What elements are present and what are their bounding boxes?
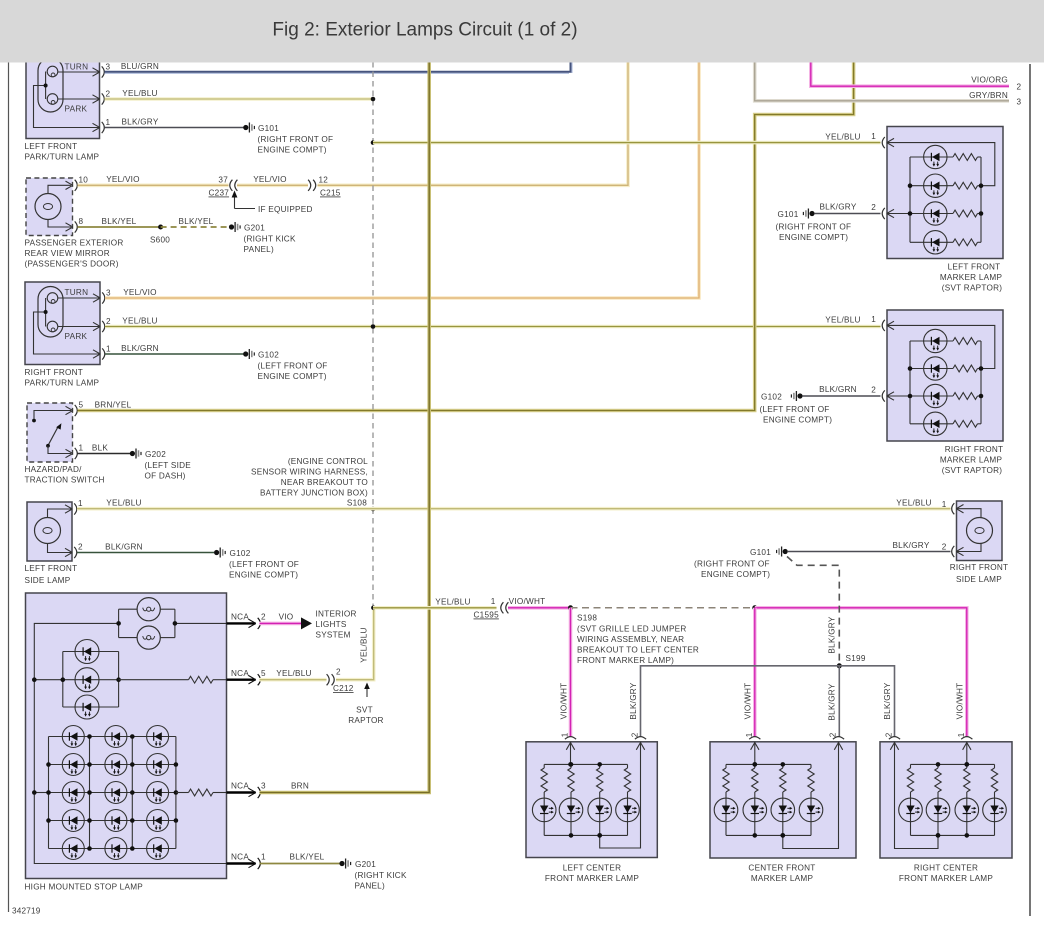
internal common wire to pin 1: [45, 72, 47, 100]
svg-text:(RIGHT KICK: (RIGHT KICK: [244, 235, 296, 244]
svg-text:ENGINE COMPT): ENGINE COMPT): [258, 372, 327, 381]
svg-text:BATTERY JUNCTION BOX): BATTERY JUNCTION BOX): [260, 489, 368, 498]
harness S108 dashed line: [372, 62, 374, 608]
svg-text:RIGHT FRONT: RIGHT FRONT: [950, 563, 1009, 572]
stop lamp LED grid rails: [48, 737, 50, 849]
turn filament: [47, 293, 58, 304]
wire BLK/YEL dashed to G201: [161, 226, 229, 228]
svg-text:1: 1: [871, 132, 876, 141]
svg-text:37: 37: [218, 175, 228, 184]
wire VIO/WHT drop to center lamp: [753, 608, 757, 737]
lamp RIGHT FRONT SIDE LAMP box: [957, 501, 1003, 561]
svg-text:C215: C215: [320, 189, 341, 198]
pin 1 connector: [887, 321, 894, 325]
svg-text:PASSENGER EXTERIOR: PASSENGER EXTERIOR: [25, 239, 124, 248]
svg-text:G101: G101: [750, 548, 771, 557]
pin NCA 3 stub: [227, 791, 256, 793]
lamp LEFT FRONT MARKER LAMP box: [887, 127, 1003, 259]
LED D2: [75, 668, 99, 692]
LED D1: [75, 640, 99, 664]
svg-text:S198: S198: [577, 614, 597, 623]
switch HAZARD/PAD/TRACTION box (dashed): [27, 403, 73, 462]
svg-text:VIO/WHT: VIO/WHT: [560, 683, 569, 720]
svg-text:VIO/ORG: VIO/ORG: [971, 76, 1008, 85]
stop lamp grid left feed: [34, 792, 48, 794]
marker lamp LEDs: [924, 329, 947, 352]
internal wire turn filament to pin 3: [58, 71, 99, 73]
svg-text:YEL/VIO: YEL/VIO: [123, 288, 157, 297]
marker lamp chains and rails: [544, 763, 627, 765]
lamp RIGHT FRONT MARKER LAMP box: [887, 310, 1003, 441]
svg-text:(SVT RAPTOR): (SVT RAPTOR): [942, 466, 1002, 475]
side lamp bulb: [35, 518, 61, 544]
svg-text:1: 1: [871, 315, 876, 324]
svg-text:5: 5: [261, 669, 266, 678]
svg-text:REAR VIEW MIRROR: REAR VIEW MIRROR: [25, 249, 110, 258]
pin 2 top connector: [636, 743, 640, 750]
pin 1 internal wire: [887, 325, 995, 368]
lamp LEFT FRONT SIDE LAMP box: [27, 502, 72, 561]
svg-text:C237: C237: [209, 189, 230, 198]
svg-text:Fig 2: Exterior Lamps Circuit: Fig 2: Exterior Lamps Circuit (1 of 2): [272, 20, 577, 41]
svg-text:2: 2: [261, 613, 266, 622]
marker lamp rows and brackets: [909, 341, 911, 424]
marker lamp LEDs: [899, 798, 923, 822]
svg-text:YEL/VIO: YEL/VIO: [106, 175, 140, 184]
svg-text:BLK/GRY: BLK/GRY: [828, 683, 837, 720]
svg-text:YEL/BLU: YEL/BLU: [896, 499, 931, 508]
pin 1 top connector: [566, 743, 570, 750]
pin 2 internal wire: [600, 742, 641, 848]
turn filament: [47, 66, 58, 77]
connector C215 half: [308, 180, 311, 191]
pin 2 connector: [93, 322, 100, 326]
svg-text:2: 2: [871, 203, 876, 212]
svg-text:BLK/YEL: BLK/YEL: [290, 853, 325, 862]
svg-text:SIDE LAMP: SIDE LAMP: [956, 575, 1002, 584]
node S108 junction trunk to left marker: [371, 140, 376, 145]
svg-text:G102: G102: [761, 393, 782, 402]
svg-text:(LEFT SIDE: (LEFT SIDE: [145, 461, 192, 470]
svg-text:2: 2: [106, 317, 111, 326]
svg-text:ENGINE COMPT): ENGINE COMPT): [258, 146, 327, 155]
IF EQUIPPED callout: [234, 194, 236, 209]
svg-text:PANEL): PANEL): [355, 882, 385, 891]
svg-text:BRN: BRN: [291, 782, 309, 791]
LED D3: [75, 695, 99, 719]
wire YEL/BLU pin 2 to right marker lamp: [105, 325, 881, 329]
svg-text:342719: 342719: [12, 907, 41, 916]
wire VIO to interior lights: [260, 622, 302, 626]
marker lamp LEDs: [924, 145, 947, 168]
svg-text:C1595: C1595: [474, 611, 500, 620]
svg-text:S108: S108: [347, 499, 367, 508]
svg-text:SVT: SVT: [356, 706, 373, 715]
svg-text:NEAR BREAKOUT TO: NEAR BREAKOUT TO: [281, 478, 368, 487]
svg-text:ENGINE COMPT): ENGINE COMPT): [701, 570, 770, 579]
splice S198: [568, 605, 573, 610]
stop lamp LED grid diodes: [62, 726, 84, 748]
svg-text:GRY/BRN: GRY/BRN: [969, 91, 1008, 100]
svg-text:(SVT GRILLE LED JUMPER: (SVT GRILLE LED JUMPER: [577, 625, 687, 634]
junction dots bulb bracket: [116, 621, 121, 626]
svg-text:BLK/GRY: BLK/GRY: [121, 118, 158, 127]
svg-text:FRONT MARKER LAMP: FRONT MARKER LAMP: [899, 874, 993, 883]
pin 1 top connector: [751, 743, 755, 750]
stop lamp bulb 2: [137, 626, 160, 649]
svg-text:YEL/BLU: YEL/BLU: [122, 89, 157, 98]
svg-text:5: 5: [79, 401, 84, 410]
svg-text:YEL/BLU: YEL/BLU: [276, 669, 311, 678]
svg-text:BLK: BLK: [92, 444, 109, 453]
mirror internal wire pin 10: [48, 185, 71, 193]
svg-text:BLK/GRN: BLK/GRN: [819, 385, 857, 394]
svg-text:3: 3: [106, 289, 111, 298]
wire YEL/BLU C212 up to node: [336, 608, 374, 680]
svg-text:1: 1: [957, 732, 966, 737]
node S108 junction YEL/BLU right lamp: [371, 324, 376, 329]
pin 2 connector: [93, 95, 100, 99]
ground G102: [797, 393, 802, 398]
pin 1 internal wire: [570, 742, 572, 765]
svg-text:VIO: VIO: [279, 613, 294, 622]
marker lamp LEDs: [532, 798, 556, 822]
wire BLK/YEL to G201: [260, 863, 341, 865]
ground G101 right side: [783, 549, 788, 554]
svg-text:G202: G202: [145, 450, 166, 459]
pin 1 internal wire: [887, 143, 995, 186]
svg-text:2: 2: [885, 732, 894, 737]
marker lamp chains and rails: [911, 763, 995, 765]
svg-text:RIGHT CENTER: RIGHT CENTER: [914, 864, 978, 873]
right cut-off component edge: [1029, 64, 1031, 916]
wire YEL/VIO C215 up top: [318, 62, 629, 185]
pin 3 connector: [93, 68, 100, 72]
svg-text:(RIGHT FRONT OF: (RIGHT FRONT OF: [258, 135, 334, 144]
svg-text:ENGINE COMPT): ENGINE COMPT): [779, 233, 848, 242]
pin 2 internal wire: [895, 742, 939, 849]
svg-text:LEFT FRONT: LEFT FRONT: [948, 263, 1001, 272]
pin 1 connector: [887, 138, 894, 142]
svg-text:G101: G101: [777, 210, 798, 219]
internal wire park filament to pin 2: [58, 326, 99, 328]
svg-text:PARK/TURN LAMP: PARK/TURN LAMP: [25, 379, 100, 388]
svg-text:BLK/GRY: BLK/GRY: [883, 682, 892, 719]
side lamp internal wire pin 1: [48, 509, 72, 518]
internal common wire to pin 1: [45, 298, 47, 327]
junction dots marker lamp: [936, 762, 941, 767]
wire BLK/GRY pin 1 to G101: [105, 127, 244, 129]
svg-text:ENGINE COMPT): ENGINE COMPT): [763, 416, 832, 425]
wire BLK to G202: [78, 453, 131, 455]
junction dot in lamp: [44, 84, 48, 88]
pin 2 internal wire: [887, 395, 910, 397]
wire YEL/VIO between connectors: [237, 184, 308, 188]
dual filament bulb symbol: [38, 58, 63, 112]
wire VIO/WHT to right center lamp: [755, 608, 967, 737]
svg-text:LIGHTS: LIGHTS: [316, 620, 347, 629]
wire BLK/GRY G101 to right side lamp: [788, 551, 951, 553]
left page border: [8, 63, 10, 913]
park filament: [47, 94, 58, 105]
svg-text:BLK/GRN: BLK/GRN: [105, 543, 143, 552]
stop lamp left rail: [34, 623, 226, 863]
switch wire top: [34, 411, 71, 419]
lamp RIGHT FRONT PARK/TURN LAMP box: [25, 282, 100, 365]
svg-text:G101: G101: [258, 124, 279, 133]
svg-text:BLK/GRY: BLK/GRY: [892, 541, 929, 550]
stop lamp bulb output wire: [175, 622, 227, 624]
svg-text:(LEFT FRONT OF: (LEFT FRONT OF: [760, 405, 830, 414]
junction dots LED grid: [87, 734, 92, 739]
switch pivot dot: [46, 444, 50, 448]
svg-text:S600: S600: [150, 236, 170, 245]
svg-text:LEFT FRONT: LEFT FRONT: [25, 142, 78, 151]
svg-text:G201: G201: [244, 224, 265, 233]
wire YEL/BLU side lamps trunk: [77, 507, 951, 511]
node S108 end junction: [371, 606, 376, 611]
connector C237 half: [230, 180, 233, 191]
lamp LEFT CENTER FRONT MARKER LAMP box: [526, 742, 657, 858]
svg-text:RAPTOR: RAPTOR: [348, 716, 383, 725]
pin 1 connector: [93, 123, 100, 127]
junction dot in lamp: [44, 310, 48, 314]
pin 2 connector: [65, 548, 72, 552]
ground G202: [130, 451, 135, 456]
svg-text:TRACTION SWITCH: TRACTION SWITCH: [25, 476, 105, 485]
wire YEL/BLU pin 2 to S108: [105, 97, 374, 101]
svg-text:(ENGINE CONTROL: (ENGINE CONTROL: [288, 457, 368, 466]
switch blade: [48, 427, 58, 446]
svg-text:MARKER LAMP: MARKER LAMP: [940, 273, 1003, 282]
svg-text:(PASSENGER'S DOOR): (PASSENGER'S DOOR): [25, 260, 119, 269]
svg-text:3: 3: [261, 782, 266, 791]
ground G101 left: [243, 125, 248, 130]
svg-text:1: 1: [106, 118, 111, 127]
pin 2 top connector: [890, 743, 894, 750]
pin 8 connector: [66, 223, 73, 227]
marker lamp rows and brackets: [909, 157, 911, 242]
svg-text:WIRING ASSEMBLY, NEAR: WIRING ASSEMBLY, NEAR: [577, 635, 684, 644]
jumper dashed wire S198 segment: [571, 607, 755, 609]
wire YEL/BLU to C212: [260, 678, 327, 682]
svg-text:YEL/BLU: YEL/BLU: [106, 499, 141, 508]
svg-text:1: 1: [942, 500, 947, 509]
svg-text:BLK/GRY: BLK/GRY: [819, 203, 856, 212]
pin 2 internal wire: [887, 213, 910, 215]
side lamp bulb: [967, 518, 993, 544]
svg-text:3: 3: [106, 63, 111, 72]
svg-text:SIDE LAMP: SIDE LAMP: [25, 576, 71, 585]
svg-text:BLK/GRY: BLK/GRY: [828, 616, 837, 653]
pin 1 top connector: [963, 743, 967, 750]
svg-text:BLK/GRY: BLK/GRY: [629, 682, 638, 719]
svg-text:C212: C212: [333, 684, 354, 693]
svg-text:BREAKOUT TO LEFT CENTER: BREAKOUT TO LEFT CENTER: [577, 646, 699, 655]
park filament: [47, 321, 58, 332]
mirror bulb: [35, 194, 61, 220]
svg-text:INTERIOR: INTERIOR: [316, 610, 357, 619]
svg-text:1: 1: [491, 597, 496, 606]
pin 2 connector: [887, 209, 894, 213]
svg-text:G102: G102: [258, 351, 279, 360]
svg-text:YEL/BLU: YEL/BLU: [122, 317, 157, 326]
wire BLK/GRN pin 1 to G102: [105, 353, 243, 355]
svg-text:FRONT MARKER LAMP): FRONT MARKER LAMP): [577, 656, 674, 665]
svg-text:2: 2: [829, 732, 838, 737]
resistor R2: [176, 792, 189, 794]
svg-text:3: 3: [1017, 98, 1022, 107]
junction dots marker lamp: [569, 762, 574, 767]
wire BLK/GRY S199 to right center lamp: [839, 666, 894, 737]
svg-text:OF DASH): OF DASH): [145, 472, 186, 481]
node S108 junction YEL/BLU side lamp: [371, 507, 376, 512]
lamp CENTER FRONT MARKER LAMP box: [710, 742, 856, 858]
svg-text:YEL/BLU: YEL/BLU: [825, 316, 860, 325]
svg-text:BLU/GRN: BLU/GRN: [121, 62, 159, 71]
ground G102: [243, 351, 248, 356]
svg-text:(RIGHT KICK: (RIGHT KICK: [355, 871, 407, 880]
ground G201 mirror: [229, 224, 234, 229]
pin 1 internal wire: [966, 742, 968, 765]
junction dots LED group: [32, 677, 37, 682]
svg-text:PARK: PARK: [65, 105, 88, 114]
splice S600: [158, 225, 163, 230]
svg-text:1: 1: [106, 345, 111, 354]
pin 1 connector: [65, 505, 72, 509]
switch wire bottom: [48, 446, 71, 454]
svg-text:1: 1: [745, 732, 754, 737]
svg-text:(LEFT FRONT OF: (LEFT FRONT OF: [258, 362, 328, 371]
svg-text:RIGHT FRONT: RIGHT FRONT: [25, 368, 84, 377]
svg-text:FRONT MARKER LAMP: FRONT MARKER LAMP: [545, 874, 639, 883]
svg-text:(SVT RAPTOR): (SVT RAPTOR): [942, 284, 1002, 293]
node S108 junction YEL/BLU left lamp: [371, 97, 376, 102]
title bar: [0, 0, 1044, 63]
wire VIO/WHT C1595 to S198: [508, 606, 571, 610]
svg-text:NCA: NCA: [231, 613, 249, 622]
svg-text:YEL/BLU: YEL/BLU: [825, 133, 860, 142]
wire GRY/BRN top right: [755, 62, 1009, 101]
wire YEL/BLU S108 to left marker lamp: [373, 141, 881, 145]
resistor R1: [119, 679, 189, 681]
svg-text:1: 1: [261, 853, 266, 862]
pin NCA 1 stub: [227, 862, 256, 864]
pin 10 connector: [66, 181, 73, 185]
internal wire park filament to pin 2: [58, 98, 99, 100]
dashed BLK/GRY from G101 to S199: [787, 557, 839, 665]
svg-text:HAZARD/PAD/: HAZARD/PAD/: [25, 465, 83, 474]
svg-text:1: 1: [79, 444, 84, 453]
svg-text:LEFT CENTER: LEFT CENTER: [563, 864, 622, 873]
svg-text:SENSOR WIRING HARNESS,: SENSOR WIRING HARNESS,: [251, 468, 368, 477]
svg-text:HIGH MOUNTED STOP LAMP: HIGH MOUNTED STOP LAMP: [25, 883, 144, 892]
pin 2 connector: [887, 392, 894, 396]
dual filament bulb symbol: [38, 287, 63, 338]
marker lamp LEDs: [714, 798, 738, 822]
pin 1 connector: [956, 505, 963, 509]
side lamp internal wire pin 1: [957, 509, 982, 518]
svg-text:1: 1: [561, 732, 570, 737]
svg-text:(LEFT FRONT OF: (LEFT FRONT OF: [229, 560, 299, 569]
node jumper junction 2: [752, 605, 757, 610]
svg-text:SYSTEM: SYSTEM: [316, 631, 351, 640]
side lamp internal wire pin 2: [957, 544, 982, 552]
svg-text:2: 2: [78, 543, 83, 552]
svg-text:2: 2: [631, 732, 640, 737]
svg-text:8: 8: [79, 217, 84, 226]
svg-text:G102: G102: [230, 549, 251, 558]
svg-text:2: 2: [1017, 83, 1022, 92]
switch contact dot: [32, 419, 36, 423]
svg-text:RIGHT FRONT: RIGHT FRONT: [945, 445, 1004, 454]
wire VIO/ORG top right: [811, 62, 1009, 86]
svg-text:BRN/YEL: BRN/YEL: [95, 401, 132, 410]
pin 2 internal wire: [783, 742, 839, 849]
svg-text:MARKER LAMP: MARKER LAMP: [751, 874, 814, 883]
wire YEL/VIO pin 3 up top: [105, 62, 699, 298]
wire ground to pin 2: [803, 395, 881, 397]
pin 2 top connector: [834, 743, 838, 750]
junction dots marker lamp: [753, 762, 758, 767]
svg-text:YEL/BLU: YEL/BLU: [360, 627, 369, 662]
svg-text:1: 1: [78, 499, 83, 508]
svg-text:LEFT FRONT: LEFT FRONT: [25, 564, 78, 573]
svg-text:TURN: TURN: [65, 288, 89, 297]
connector C212: [327, 674, 330, 685]
svg-text:TURN: TURN: [65, 63, 89, 72]
svg-text:MARKER LAMP: MARKER LAMP: [940, 456, 1003, 465]
wire BRN up to top: [260, 62, 430, 793]
svg-text:YEL/VIO: YEL/VIO: [253, 175, 287, 184]
svg-text:CENTER FRONT: CENTER FRONT: [748, 864, 815, 873]
svg-text:2: 2: [106, 90, 111, 99]
ground G201 stop lamp: [339, 861, 344, 866]
svg-text:NCA: NCA: [231, 782, 249, 791]
ground G101: [809, 211, 814, 216]
svg-text:ENGINE COMPT): ENGINE COMPT): [229, 571, 298, 580]
svg-text:VIO/WHT: VIO/WHT: [744, 683, 753, 720]
mirror component box (dashed): [26, 178, 73, 236]
arrow to INTERIOR LIGHTS SYSTEM: [301, 617, 312, 629]
wire BLK/GRY S199 to left center lamp: [641, 666, 840, 737]
side lamp internal wire pin 2: [48, 544, 72, 553]
lamp RIGHT CENTER FRONT MARKER LAMP box: [880, 742, 1012, 858]
internal wire turn filament to pin 3: [58, 297, 99, 299]
junction dots brackets: [908, 183, 913, 188]
svg-text:G201: G201: [355, 860, 376, 869]
pin 1 connector: [93, 350, 100, 354]
stop lamp LED group bracket: [62, 652, 64, 708]
wire BRN/YEL switch to top right: [78, 62, 854, 411]
svg-text:IF EQUIPPED: IF EQUIPPED: [258, 205, 313, 214]
splice S199: [837, 663, 842, 668]
svg-text:PARK/TURN LAMP: PARK/TURN LAMP: [25, 153, 100, 162]
svg-text:PANEL): PANEL): [244, 245, 274, 254]
stop lamp bulb pair bracket: [118, 609, 120, 637]
wire VIO/WHT drop to left center lamp: [569, 608, 573, 737]
SVT RAPTOR callout: [366, 686, 368, 698]
svg-text:S199: S199: [846, 654, 866, 663]
svg-text:YEL/BLU: YEL/BLU: [435, 598, 470, 607]
pin 3 connector: [93, 294, 100, 298]
pin 1 internal wire: [754, 742, 756, 765]
svg-text:(RIGHT FRONT OF: (RIGHT FRONT OF: [694, 560, 770, 569]
wire YEL/BLU to C1595: [373, 606, 497, 610]
svg-text:10: 10: [79, 176, 89, 185]
svg-text:PARK: PARK: [65, 332, 88, 341]
pin NCA 2 stub: [227, 622, 256, 624]
